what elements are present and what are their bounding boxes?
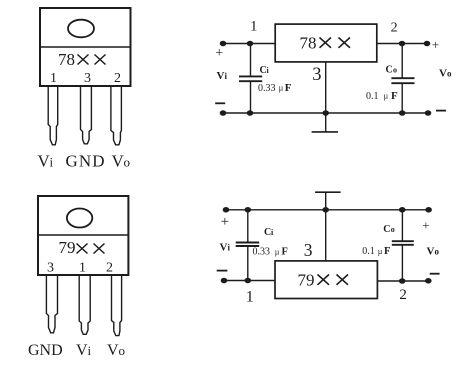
ground (315, 191, 341, 193)
U2 label 79XX (59, 238, 105, 257)
svg-text:1: 1 (250, 19, 258, 35)
svg-text:o: o (119, 343, 126, 358)
net label Vi (220, 242, 231, 254)
svg-text:F: F (285, 82, 292, 94)
svg-text:i: i (50, 155, 54, 170)
junction pin3 rail (323, 111, 328, 115)
svg-text:+: + (432, 37, 439, 52)
svg-text:+: + (422, 217, 429, 232)
svg-text:F: F (391, 90, 398, 102)
svg-text:3: 3 (84, 71, 91, 86)
svg-text:F: F (282, 247, 288, 258)
U1 pin2 name Vo (112, 152, 131, 171)
net label Vi (217, 70, 228, 82)
junction C2 top (399, 41, 404, 45)
minus sign output (430, 273, 440, 275)
U1 leg pin1 (48, 87, 58, 145)
wire output top (377, 43, 427, 45)
junction C4 top (400, 208, 405, 212)
svg-text:+: + (221, 214, 229, 230)
C1 name Ci (260, 65, 270, 76)
junction C1 bottom (247, 111, 252, 115)
U2 mounting hole (67, 209, 92, 228)
wire input bottom (224, 280, 275, 282)
capacitor C4 (Co) (392, 210, 414, 281)
regulator U3 78XX box (275, 24, 377, 62)
svg-text:0.1: 0.1 (366, 91, 379, 102)
svg-text:78: 78 (58, 50, 75, 69)
U1 mounting hole (68, 20, 94, 38)
net label Vo (427, 246, 440, 258)
svg-text:79: 79 (298, 270, 315, 289)
svg-text:i: i (267, 66, 270, 75)
capacitor C1 (Ci) (239, 44, 262, 114)
U3 label 78XX (300, 33, 351, 52)
wire input top (223, 43, 275, 45)
regulator U1 78XX package body (40, 8, 131, 86)
svg-text:0.1: 0.1 (362, 246, 375, 257)
ground (312, 131, 338, 133)
terminal top right (426, 208, 431, 212)
junction C1 top (247, 41, 252, 45)
C4 value 0.1uF (362, 246, 390, 257)
U1 label 78XX (58, 50, 106, 69)
svg-text:o: o (435, 247, 440, 257)
junction pin3 rail (323, 208, 328, 212)
wire pin3 to ground (325, 62, 327, 132)
terminal output + (424, 41, 429, 45)
svg-text:i: i (225, 71, 228, 81)
C3 value 0.33uF (253, 247, 288, 258)
svg-text:i: i (271, 228, 274, 237)
U1 leg pin2 (111, 87, 122, 145)
C1 value 0.33uF (258, 82, 292, 94)
svg-text:C: C (386, 65, 393, 76)
C2 name Co (386, 65, 398, 76)
U2 leg pin3 (46, 276, 57, 333)
svg-text:0.33: 0.33 (253, 247, 271, 258)
svg-text:o: o (447, 69, 452, 79)
svg-text:3: 3 (304, 240, 313, 260)
svg-text:i: i (228, 243, 231, 253)
capacitor C2 (Co) (391, 44, 414, 114)
U4 label 79XX (298, 270, 349, 289)
svg-text:+: + (215, 46, 223, 61)
terminal top left (223, 208, 228, 212)
svg-text:o: o (393, 66, 397, 75)
C4 name Co (383, 224, 395, 235)
C3 name Ci (264, 227, 274, 238)
regulator U2 79XX package body (38, 196, 128, 275)
svg-text:3: 3 (47, 261, 54, 276)
svg-text:µ: µ (384, 92, 389, 101)
svg-text:1: 1 (50, 71, 57, 86)
svg-text:o: o (391, 225, 395, 234)
svg-text:µ: µ (275, 247, 280, 256)
wire bottom rail (223, 112, 428, 114)
C2 value 0.1uF (366, 90, 398, 102)
svg-text:2: 2 (106, 261, 113, 276)
svg-text:V: V (76, 342, 88, 359)
junction C3 top (245, 208, 250, 212)
U2 pin1 name Vi (76, 342, 92, 359)
svg-text:V: V (107, 342, 119, 359)
svg-text:2: 2 (391, 20, 398, 35)
svg-text:3: 3 (312, 65, 321, 85)
svg-text:V: V (217, 70, 225, 82)
minus sign input (217, 270, 228, 272)
svg-text:1: 1 (79, 261, 86, 276)
U2 leg pin1 (79, 276, 90, 335)
svg-text:o: o (124, 155, 131, 170)
capacitor C3 (Ci) (236, 210, 260, 281)
svg-text:V: V (439, 68, 447, 80)
junction C4 bottom (400, 279, 405, 283)
svg-text:2: 2 (399, 287, 407, 303)
svg-text:2: 2 (114, 71, 121, 86)
wire ground to pin3 (325, 192, 327, 261)
terminal bottom right (426, 279, 431, 283)
svg-text:78: 78 (300, 33, 317, 52)
svg-text:V: V (427, 246, 435, 258)
U2 pin2 name Vo (107, 342, 125, 359)
svg-text:GND: GND (28, 342, 63, 359)
junction C3 bottom (245, 278, 250, 282)
svg-text:µ: µ (378, 247, 383, 256)
svg-text:F: F (384, 246, 390, 257)
svg-text:79: 79 (59, 238, 76, 257)
terminal input + (220, 41, 225, 45)
svg-text:µ: µ (279, 84, 284, 93)
U2 leg pin2 (112, 276, 122, 336)
svg-text:C: C (383, 224, 390, 235)
minus sign input (215, 102, 225, 104)
svg-text:V: V (220, 242, 228, 254)
wire top rail (226, 209, 429, 211)
U1 leg pin3 (81, 87, 92, 144)
regulator U4 79XX box (275, 261, 377, 299)
svg-text:0.33: 0.33 (258, 83, 276, 94)
wire output bottom (377, 280, 428, 282)
U1 pin1 name Vi (38, 152, 54, 171)
svg-text:GND: GND (66, 152, 106, 171)
junction C2 bottom (400, 111, 405, 115)
terminal bottom left (220, 111, 225, 115)
net label Vo (439, 68, 452, 80)
terminal bottom right (425, 111, 430, 115)
svg-text:1: 1 (246, 289, 254, 306)
svg-text:i: i (88, 343, 92, 358)
minus sign output (436, 110, 446, 112)
terminal bottom left (221, 278, 226, 282)
